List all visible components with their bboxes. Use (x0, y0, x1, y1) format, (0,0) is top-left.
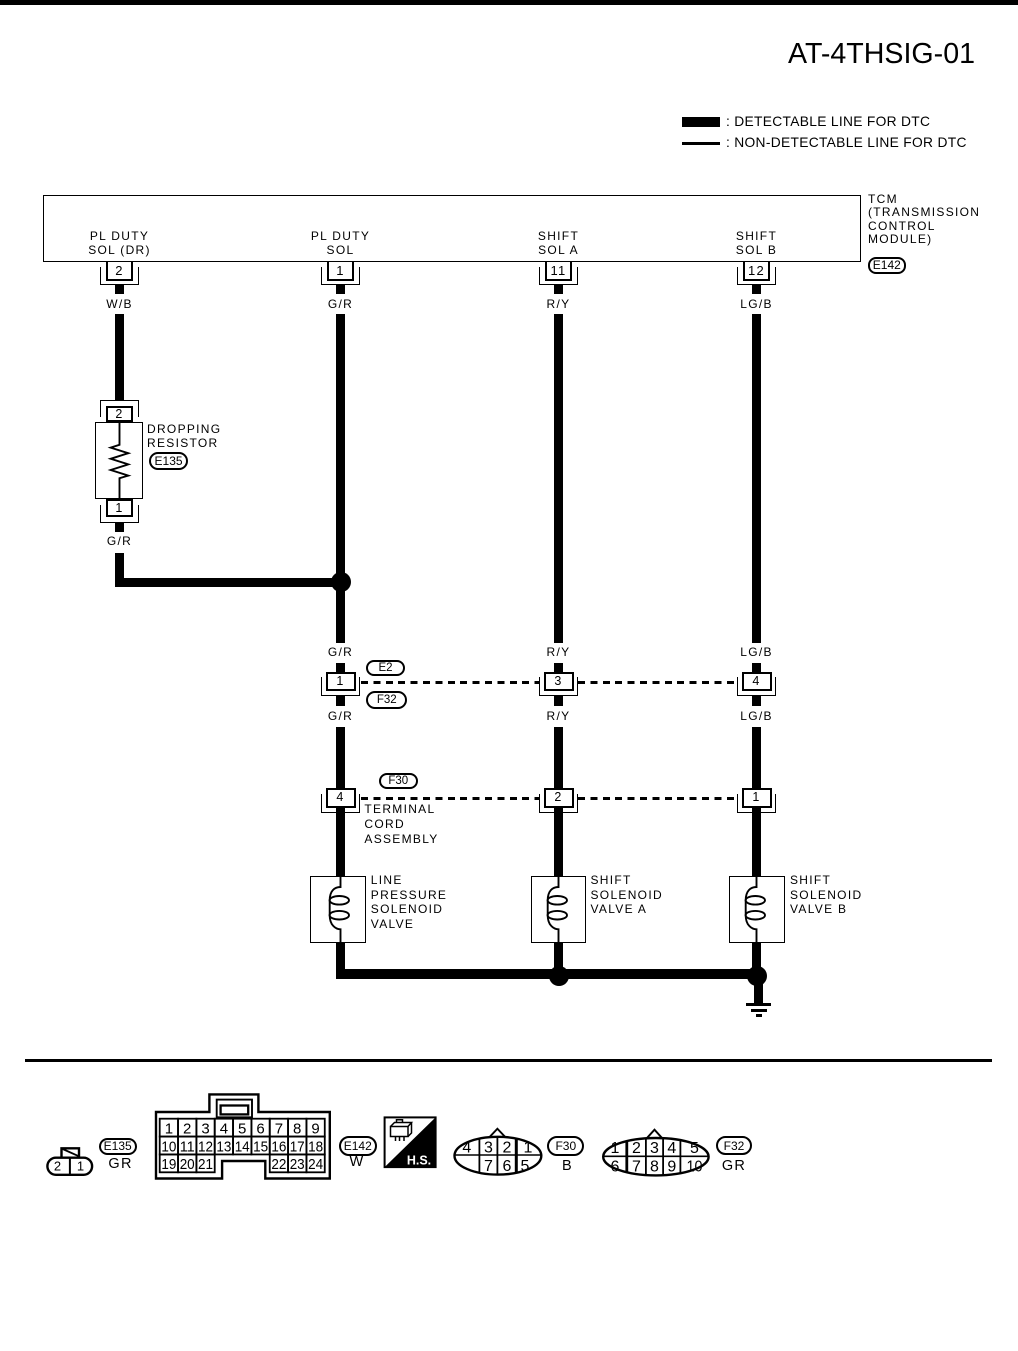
svg-text:8: 8 (650, 1158, 659, 1175)
svg-text:1: 1 (611, 1140, 620, 1157)
svg-text:2: 2 (632, 1140, 641, 1157)
svg-text:3: 3 (650, 1140, 659, 1157)
svg-text:6: 6 (611, 1158, 620, 1175)
svg-text:5: 5 (690, 1140, 699, 1157)
svg-text:7: 7 (632, 1158, 641, 1175)
svg-text:4: 4 (667, 1140, 676, 1157)
